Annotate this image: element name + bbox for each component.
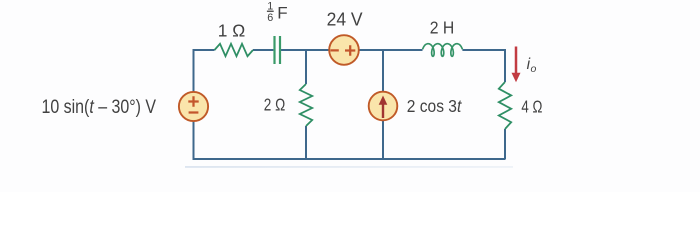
resistor 2 ohm xyxy=(300,84,312,126)
current source 2 cos 3t xyxy=(369,92,398,121)
svg-text:F: F xyxy=(277,3,287,22)
svg-text:6: 6 xyxy=(267,12,273,24)
wire left branch xyxy=(193,49,195,159)
current arrow i_o (red) xyxy=(512,47,521,83)
svg-text:2 H: 2 H xyxy=(430,18,455,38)
wire current-source branch xyxy=(382,50,384,159)
resistor 1 ohm xyxy=(215,44,254,56)
svg-text:2 cos 3t: 2 cos 3t xyxy=(407,96,463,116)
svg-text:4 Ω: 4 Ω xyxy=(521,97,542,117)
svg-text:2 Ω: 2 Ω xyxy=(264,95,286,115)
svg-text:24 V: 24 V xyxy=(327,10,363,30)
svg-text:1: 1 xyxy=(267,0,273,12)
voltage source 24 V xyxy=(329,35,359,65)
svg-text:1 Ω: 1 Ω xyxy=(218,21,246,41)
wire top rail xyxy=(194,49,506,51)
wire right branch xyxy=(504,49,506,159)
svg-text:io: io xyxy=(527,56,537,75)
voltage source 10 sin(t-30) V xyxy=(179,92,208,121)
inductor 2 H xyxy=(423,44,463,57)
wire node A branch (2-ohm) xyxy=(305,50,307,159)
resistor 4 ohm xyxy=(499,82,511,129)
wire bottom xyxy=(193,158,506,160)
svg-text:10 sin(t – 30°) V: 10 sin(t – 30°) V xyxy=(42,97,157,118)
capacitor 1/6 F xyxy=(275,36,281,64)
